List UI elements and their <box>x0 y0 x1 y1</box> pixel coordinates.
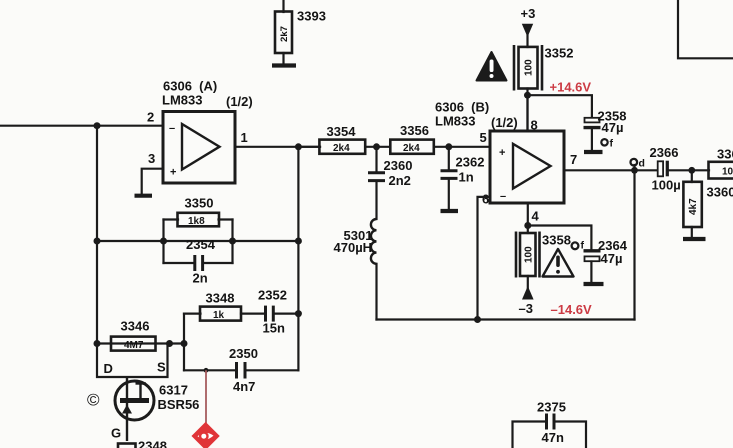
wire +3 to R3352 <box>526 35 528 47</box>
wire R3393 to ground <box>282 53 284 64</box>
svg-text:100: 100 <box>524 246 535 263</box>
inductor 5301 (470uH) <box>371 219 377 264</box>
wire pin 3 stub <box>142 169 163 194</box>
svg-text:2366: 2366 <box>650 145 679 160</box>
svg-text:2375: 2375 <box>537 400 566 415</box>
wire rail to d node vertical <box>633 170 635 319</box>
svg-text:2350: 2350 <box>229 346 258 361</box>
capacitor 2366 (100u) polarized <box>658 161 668 177</box>
node pin4 junction <box>524 222 531 229</box>
wire pin 1 output <box>235 146 320 148</box>
resistor 3358 (100) safety <box>516 232 540 278</box>
wire C2362 to bar <box>448 180 450 210</box>
capacitor 2360 (2n2) <box>368 173 385 181</box>
node at 1k/2352 rail <box>295 310 302 317</box>
svg-text:7: 7 <box>570 152 577 167</box>
svg-text:47n: 47n <box>542 430 564 445</box>
capacitor 2354 (2n) <box>195 255 203 271</box>
wire red service link <box>205 370 207 423</box>
svg-text:47µ: 47µ <box>601 251 623 266</box>
node bracket at 4M7 rail <box>181 340 188 347</box>
resistor 3354 (2k4) <box>319 140 365 154</box>
svg-text:2360: 2360 <box>384 158 413 173</box>
svg-text:10: 10 <box>722 167 733 178</box>
svg-text:–3: –3 <box>519 301 533 316</box>
svg-text:5: 5 <box>480 130 487 145</box>
op-amp U2 6306 (B) LM833 <box>490 131 564 203</box>
wire R3350 to bracket <box>219 218 233 220</box>
svg-text:3358: 3358 <box>542 233 571 248</box>
svg-text:2: 2 <box>147 110 154 125</box>
wire C2350 to bus <box>247 369 299 371</box>
svg-text:(1/2): (1/2) <box>491 115 518 130</box>
wire pin7 output <box>564 169 658 171</box>
wire C2364 to bar <box>590 262 592 283</box>
svg-text:2k4: 2k4 <box>403 143 420 154</box>
svg-text:470µH: 470µH <box>334 240 373 255</box>
svg-text:15n: 15n <box>263 321 285 336</box>
node red tap <box>204 368 209 373</box>
service diamond marker 9 <box>191 422 219 448</box>
wire supply to C2358 <box>528 95 592 118</box>
ground bar C2358 <box>584 150 603 154</box>
ground bar C2362 <box>441 209 459 213</box>
wire pin8 top entry <box>526 95 528 131</box>
svg-text:4M7: 4M7 <box>124 340 144 351</box>
node output junction <box>295 143 302 150</box>
svg-text:3352: 3352 <box>545 46 574 61</box>
resistor bottom partial <box>118 444 136 448</box>
svg-text:BSR56: BSR56 <box>158 397 200 412</box>
op-amp U1 6306 (A) LM833 <box>163 112 235 184</box>
svg-text:2354: 2354 <box>186 237 216 252</box>
wire C2366 to right <box>669 169 710 171</box>
ground bar for pin 3 <box>135 194 153 198</box>
wire pin4 to C2364 <box>528 226 592 250</box>
wire C2352 to bus <box>275 313 299 315</box>
svg-text:LM833: LM833 <box>162 93 202 108</box>
wire R3352 to pin8 <box>526 89 528 132</box>
svg-text:2n2: 2n2 <box>389 173 411 188</box>
supply arrow -3 <box>522 286 534 300</box>
capacitor 2352 (15n) <box>266 306 274 322</box>
wire bottom branch to C2354 <box>164 262 194 264</box>
svg-text:3350: 3350 <box>185 196 214 211</box>
svg-text:6306 (A): 6306 (A) <box>163 79 217 94</box>
wire inductor to bottom rail <box>375 264 377 320</box>
resistor 3352 (100) safety <box>514 45 542 91</box>
wire pin1 junction to R3354 <box>298 146 320 148</box>
wire R3356 to pin5 <box>434 146 490 148</box>
svg-text:6317: 6317 <box>159 383 188 398</box>
node pin5 branch <box>445 143 452 150</box>
wire input to pin 2 <box>0 125 163 127</box>
svg-text:1k8: 1k8 <box>188 216 205 227</box>
wire bracket right 3350/2354 <box>231 220 233 264</box>
wire feedback mid rail <box>97 240 298 242</box>
node input junction <box>94 122 101 129</box>
node fb right <box>295 238 302 245</box>
wire 2350 rail <box>184 369 235 371</box>
node 4k7 tap <box>688 167 695 174</box>
svg-text:+3: +3 <box>521 6 536 21</box>
svg-text:3354: 3354 <box>327 124 357 139</box>
supply arrow +3 <box>522 24 533 37</box>
svg-text:4: 4 <box>532 209 540 224</box>
svg-text:3360: 3360 <box>707 185 733 200</box>
node mid LPF <box>373 143 380 150</box>
svg-text:f: f <box>610 138 614 150</box>
svg-text:S: S <box>157 360 166 375</box>
node fb bracket left <box>160 238 167 245</box>
svg-text:47µ: 47µ <box>602 120 624 135</box>
svg-text:G: G <box>111 426 121 441</box>
svg-text:8: 8 <box>531 118 538 133</box>
svg-text:+: + <box>499 147 505 159</box>
capacitor 2358 (47u) polarized <box>584 118 601 128</box>
svg-text:336: 336 <box>717 147 733 162</box>
svg-text:6306 (B): 6306 (B) <box>435 100 489 115</box>
svg-text:3346: 3346 <box>121 319 150 334</box>
svg-text:4k7: 4k7 <box>688 198 699 215</box>
capacitor 2350 (4n7) <box>237 362 246 379</box>
svg-text:2362: 2362 <box>456 155 485 170</box>
node 4M7 left <box>94 340 101 347</box>
wire C2354 to bracket <box>204 262 233 264</box>
resistor 3346 (4M7) <box>111 337 156 351</box>
svg-text:–: – <box>169 123 175 135</box>
node 4M7 right <box>166 340 173 347</box>
capacitor 2364 (47u) polarized <box>584 251 601 261</box>
svg-text:2k7: 2k7 <box>279 26 290 42</box>
capacitor 2375 (47n) bottom <box>513 414 587 448</box>
wire R3358 to arrow <box>527 276 529 288</box>
resistor 3348 (1k) <box>200 307 241 321</box>
warning triangle filled <box>477 52 507 81</box>
svg-text:(1/2): (1/2) <box>226 94 253 109</box>
resistor 3350 (1k8) <box>178 213 220 227</box>
transistor Q 6317 BSR56 <box>115 377 154 441</box>
svg-text:3348: 3348 <box>206 291 235 306</box>
wire C2360 to inductor <box>375 182 377 219</box>
node d junction <box>631 167 638 174</box>
wire 4M7 rail <box>97 342 184 344</box>
svg-text:1n: 1n <box>459 170 474 185</box>
svg-text:3356: 3356 <box>400 123 429 138</box>
resistor 3393 (2k7) <box>275 12 292 54</box>
resistor 336x partial right edge <box>709 162 733 179</box>
svg-text:6: 6 <box>482 192 489 207</box>
wire C2362 drop <box>448 147 450 170</box>
svg-text:3: 3 <box>148 151 155 166</box>
node supply junction <box>524 92 531 99</box>
test point f 3358 <box>572 240 585 252</box>
wire bracket left 3350/2354 <box>162 220 164 264</box>
wire bottom rail <box>377 318 635 320</box>
ground bar for 3393 <box>272 63 296 67</box>
svg-text:LM833: LM833 <box>435 114 475 129</box>
wire vertical from pin1 junction down <box>297 147 299 370</box>
svg-text:d: d <box>639 158 645 170</box>
resistor 3360 (4k7) <box>683 170 701 237</box>
svg-text:2348: 2348 <box>138 439 167 448</box>
test point f 2358 <box>601 138 613 150</box>
wire 1k/2352 rail left bracket <box>183 314 185 371</box>
svg-text:–: – <box>500 191 506 203</box>
wire to R3348 <box>184 313 201 315</box>
svg-text:+: + <box>170 167 176 179</box>
wire C2358 to bar <box>591 130 593 151</box>
svg-text:100: 100 <box>524 59 535 76</box>
svg-text:©: © <box>87 391 100 410</box>
node fb bracket right <box>229 238 236 245</box>
svg-text:1: 1 <box>241 130 248 145</box>
ground bar C2364 <box>584 282 604 286</box>
wire R3348 to C2352 <box>241 313 264 315</box>
node fb left <box>94 238 101 245</box>
svg-text:3393: 3393 <box>297 9 326 24</box>
wire pin 6 <box>478 197 491 320</box>
box top-right corner block <box>678 0 733 58</box>
capacitor 2362 (1n) <box>441 171 458 179</box>
wire top feed to R3393 <box>282 0 284 12</box>
node marker d <box>631 158 645 171</box>
svg-text:4n7: 4n7 <box>233 379 255 394</box>
svg-text:2k4: 2k4 <box>333 143 350 154</box>
svg-text:–14.6V: –14.6V <box>551 302 593 317</box>
svg-text:2352: 2352 <box>258 288 287 303</box>
wire top branch to R3350 <box>164 218 179 220</box>
resistor 3356 (2k4) <box>390 140 434 154</box>
node bottom rail pin6 <box>474 316 481 323</box>
wire left vertical feedback bus <box>96 126 98 344</box>
svg-text:1k: 1k <box>213 310 225 321</box>
svg-text:D: D <box>104 361 113 376</box>
D/S box of FET <box>97 344 168 378</box>
svg-text:+14.6V: +14.6V <box>550 80 592 95</box>
ground bar 3360 <box>683 237 706 241</box>
wire pin4 down <box>527 203 529 233</box>
wire R3354 to R3356 <box>365 146 390 148</box>
svg-text:2n: 2n <box>193 271 208 286</box>
warning triangle outline <box>543 249 574 277</box>
wire node to C2360 <box>375 147 377 172</box>
svg-text:100µ: 100µ <box>652 178 681 193</box>
